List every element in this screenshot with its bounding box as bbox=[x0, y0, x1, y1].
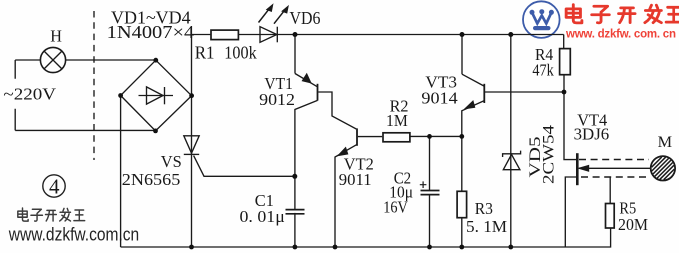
svg-text:20M: 20M bbox=[618, 215, 648, 234]
svg-text:1M: 1M bbox=[386, 111, 408, 130]
svg-text:www. dzkfw. com. cn: www. dzkfw. com. cn bbox=[565, 29, 676, 41]
sensor plate M bbox=[651, 156, 675, 180]
junction: VT2 emitter on ground rail bbox=[333, 245, 338, 250]
LED VD6 bbox=[259, 4, 289, 42]
junction: bridge left vertex bbox=[118, 93, 123, 98]
svg-text:4: 4 bbox=[49, 175, 60, 199]
svg-text:R3: R3 bbox=[475, 199, 493, 218]
svg-text:M: M bbox=[658, 134, 673, 151]
watermark grey text 电子开发王 bottom-left bbox=[18, 208, 85, 221]
resistor R4 bbox=[560, 35, 571, 93]
wire: top rail VD6 to R4 corner bbox=[277, 34, 563, 36]
resistor R2 bbox=[383, 133, 410, 142]
wire: top rail left segment bbox=[192, 34, 211, 36]
junction: C2 top node bbox=[427, 134, 432, 139]
svg-text:5. 1M: 5. 1M bbox=[466, 217, 507, 236]
junction: VD6 cathode node on top rail bbox=[293, 32, 298, 37]
bridge rectifier VD1~VD4 bbox=[121, 60, 192, 131]
lamp H bbox=[40, 47, 65, 72]
wire: VS gate to C1 node bbox=[194, 156, 295, 177]
figure number ④ bbox=[43, 175, 65, 199]
wire: bridge left vertex down to ground rail bbox=[120, 96, 122, 248]
svg-text:VS: VS bbox=[161, 152, 182, 171]
svg-text:0. 01μ: 0. 01μ bbox=[240, 207, 285, 226]
junction: VD5 node on top rail bbox=[508, 32, 513, 37]
junction: bridge top vertex bbox=[153, 58, 158, 63]
junction: VS cathode on ground rail bbox=[189, 245, 194, 250]
dashed links to sensor plate M bbox=[579, 160, 649, 178]
capacitor C2 bbox=[420, 136, 440, 247]
junction: C1 on ground rail bbox=[293, 245, 298, 250]
capacitor C1 bbox=[286, 210, 305, 214]
wire: 220V top lead to lamp bbox=[15, 59, 40, 61]
junction: VT3 collector node on top rail bbox=[460, 32, 465, 37]
svg-text:H: H bbox=[50, 26, 62, 45]
svg-text:9014: 9014 bbox=[421, 88, 458, 107]
junction: VT3 emitter / R3 node bbox=[459, 134, 464, 139]
transistor VT3 bbox=[462, 35, 564, 137]
svg-text:9012: 9012 bbox=[259, 90, 295, 109]
watermark red text 电子开发王 top-right bbox=[566, 5, 679, 23]
svg-text:~220V: ~220V bbox=[3, 84, 56, 103]
svg-text:R1: R1 bbox=[195, 43, 215, 63]
junction: R4 bottom / VT3 base / VT4 drain node bbox=[562, 90, 567, 95]
wire: lamp to bridge top vertex bbox=[66, 59, 156, 61]
wire: R4/VT3 base node down to VT4 drain bbox=[564, 92, 577, 160]
watermark logo top-right (blue W circle) bbox=[523, 1, 560, 38]
svg-text:100k: 100k bbox=[224, 43, 257, 63]
junction: C2 on ground rail bbox=[427, 245, 432, 250]
svg-text:47k: 47k bbox=[532, 60, 554, 79]
svg-text:2N6565: 2N6565 bbox=[122, 170, 181, 189]
resistor R1 bbox=[211, 30, 238, 39]
svg-text:16V: 16V bbox=[383, 198, 408, 217]
junction: VD5 on ground rail bbox=[508, 245, 513, 250]
svg-text:1N4007×4: 1N4007×4 bbox=[107, 22, 195, 42]
boundary dashed line bbox=[93, 11, 95, 160]
svg-text:2CW54: 2CW54 bbox=[541, 125, 558, 184]
svg-text:VD6: VD6 bbox=[290, 8, 321, 28]
transistor VT1 bbox=[295, 35, 356, 248]
junction: bridge right vertex bbox=[189, 93, 194, 98]
wire: left source vertical (broken by ~220V label) bbox=[14, 60, 16, 130]
wire: ground rail bbox=[121, 228, 611, 247]
transistor VT2 bbox=[335, 128, 382, 247]
junction: R3 on ground rail bbox=[459, 245, 464, 250]
junction: VS gate / C1 node bbox=[292, 174, 297, 179]
resistor R3 bbox=[457, 136, 467, 247]
wire: 220V bottom lead to bridge bottom vertex bbox=[15, 129, 155, 131]
wire: bridge right vertex up to top rail bbox=[191, 35, 193, 96]
junction: bridge bottom vertex bbox=[153, 129, 158, 134]
svg-text:3DJ6: 3DJ6 bbox=[574, 125, 610, 144]
thyristor VS bbox=[184, 96, 199, 247]
FET VT4 bbox=[565, 153, 651, 247]
wire: R2 to VT3 emitter node bbox=[411, 135, 463, 137]
svg-text:www.dzkfw.com.cn: www.dzkfw.com.cn bbox=[8, 223, 139, 244]
wire: R1 to VD6 bbox=[239, 34, 278, 36]
resistor R5 bbox=[606, 177, 615, 228]
zener diode VD5 bbox=[503, 35, 521, 248]
svg-text:9011: 9011 bbox=[339, 170, 372, 189]
